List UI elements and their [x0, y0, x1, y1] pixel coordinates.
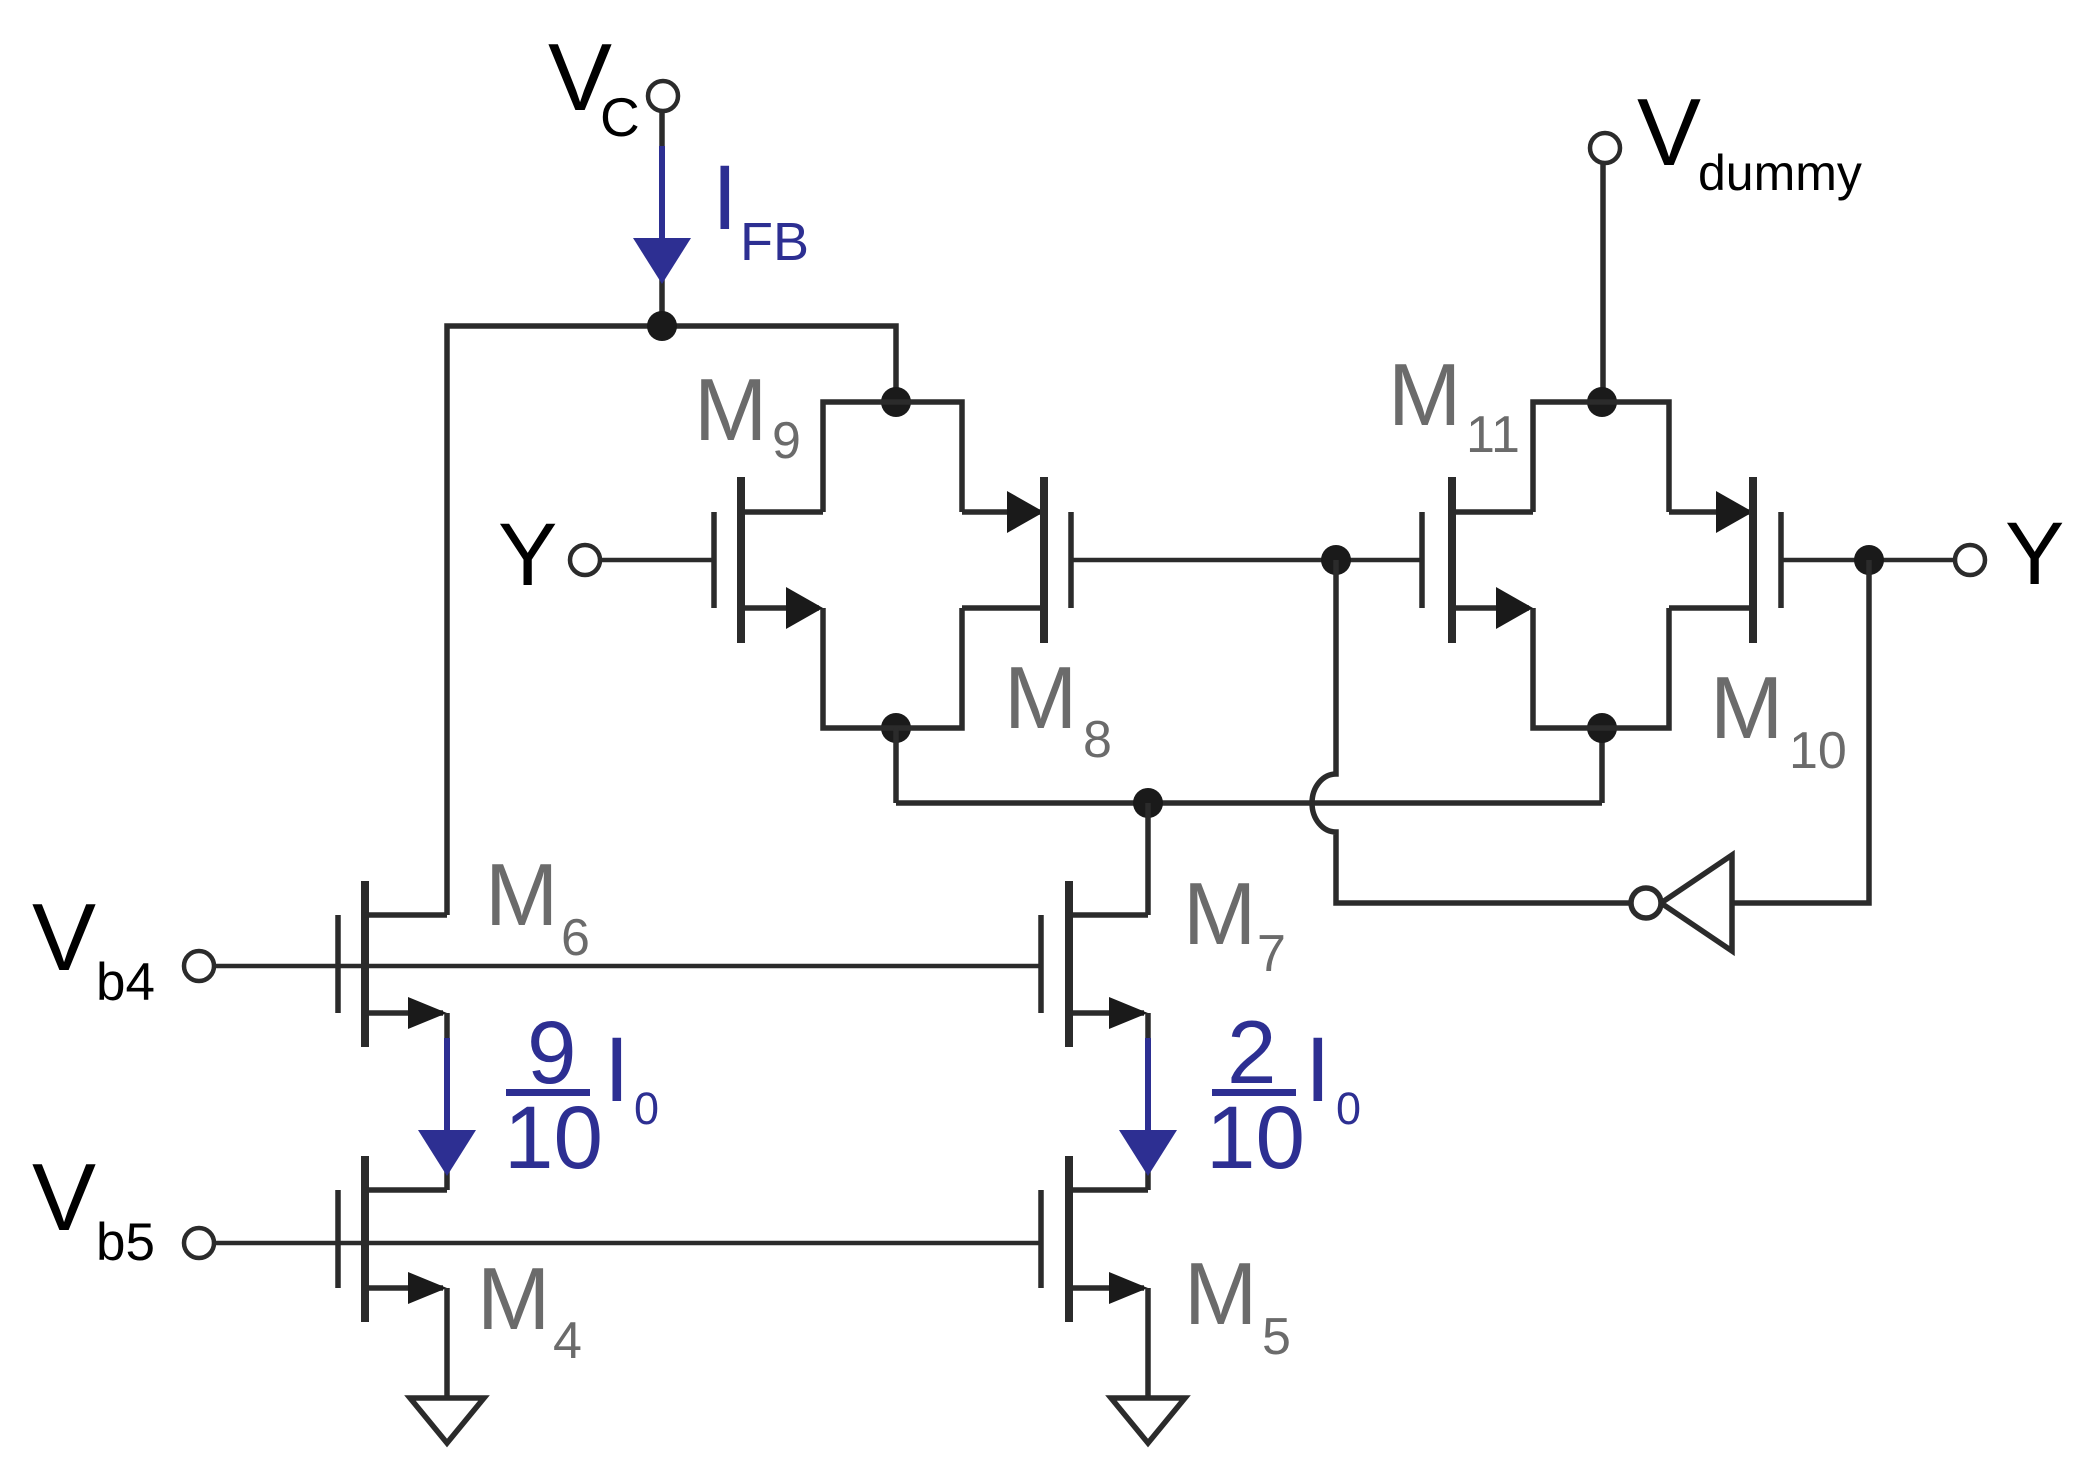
label IFB: [712, 147, 809, 272]
wire Y input to M9 gate: [599, 558, 714, 563]
wire bottom rail y803: [896, 800, 1602, 806]
wire feedback vertical with hop: [1312, 560, 1631, 903]
svg-text:9: 9: [772, 412, 801, 470]
wire M5 source to ground: [1145, 1288, 1151, 1397]
svg-text:6: 6: [561, 909, 590, 967]
svg-text:I: I: [712, 147, 738, 249]
node M11-M10 top junction: [1587, 387, 1617, 417]
svg-text:M: M: [1004, 648, 1077, 747]
wire M4 source lead with arrow: [365, 1272, 447, 1304]
svg-text:I: I: [1305, 1019, 1331, 1121]
svg-text:C: C: [600, 86, 640, 148]
svg-text:0: 0: [634, 1083, 659, 1134]
wire M5 drain lead: [1069, 1187, 1148, 1193]
svg-text:10: 10: [504, 1087, 603, 1187]
svg-text:0: 0: [1336, 1083, 1361, 1134]
svg-text:Y: Y: [2005, 503, 2064, 603]
svg-text:dummy: dummy: [1698, 145, 1862, 201]
label 2/10 I0: [1206, 1002, 1361, 1187]
wire M7 drain lead: [1069, 912, 1148, 918]
svg-text:V: V: [32, 884, 96, 991]
label Y input: [498, 504, 557, 604]
transistor M7: [1041, 881, 1069, 1047]
wire M10 drain lead with arrow: [1669, 491, 1753, 533]
label M8: [1004, 648, 1112, 769]
transistor M9: [714, 477, 741, 643]
wire VC rail: from left branch corner across to M9/M8 drop: [447, 326, 896, 915]
node M7 drain junction: [1133, 788, 1163, 818]
svg-text:11: 11: [1466, 406, 1520, 464]
wire M6 drain lead: [365, 912, 447, 918]
svg-text:10: 10: [1206, 1087, 1305, 1187]
transistor M5: [1041, 1156, 1069, 1322]
wire bottom rail riser to M11-M10: [1599, 728, 1605, 803]
svg-text:5: 5: [1262, 1308, 1291, 1366]
ground under M5: [1111, 1398, 1185, 1443]
svg-text:M: M: [694, 360, 767, 459]
wire M11-M10 top arms: [1533, 402, 1669, 512]
inverter U1: [1631, 855, 1732, 951]
transistor M8: [1044, 477, 1071, 643]
wire M9-M8 bottom arms: [823, 608, 962, 728]
transistor M6: [338, 881, 365, 1047]
node M8-M11 gate junction: [1321, 545, 1351, 575]
current arrow IFB: [633, 146, 691, 284]
svg-text:M: M: [1710, 658, 1783, 757]
wire M7 source to M5 drain: [1145, 1013, 1151, 1190]
svg-text:M: M: [477, 1249, 550, 1348]
node M9-M8 bottom junction: [881, 713, 911, 743]
svg-text:M: M: [1184, 1244, 1257, 1343]
terminal Vb5: [184, 1228, 214, 1258]
wire Vb5 bias rail: [214, 1241, 1041, 1246]
wire M8 drain lead with arrow: [962, 491, 1044, 533]
current arrow 9/10 I0: [418, 1038, 476, 1176]
current arrow 2/10 I0: [1119, 1038, 1177, 1176]
node M9-M8 top junction: [881, 387, 911, 417]
terminal V dummy: [1590, 133, 1620, 163]
wire V dummy stem: [1600, 162, 1606, 402]
wire Vb4 bias rail: [214, 964, 1041, 969]
label Vb5: [32, 1144, 155, 1272]
wire M4 source to ground: [444, 1288, 450, 1397]
wire M10 source lead: [1669, 605, 1753, 611]
svg-text:7: 7: [1257, 925, 1286, 983]
svg-text:10: 10: [1789, 722, 1847, 780]
terminal Vb4: [184, 951, 214, 981]
label M11: [1388, 345, 1520, 464]
label V dummy: [1637, 79, 1862, 201]
label M10: [1710, 658, 1847, 780]
transistor M10: [1753, 477, 1781, 643]
label Y output: [2005, 503, 2064, 603]
wire M6 source lead with arrow: [365, 997, 447, 1029]
svg-text:I: I: [604, 1019, 630, 1121]
wire M7 source lead with arrow: [1069, 997, 1148, 1029]
wire M9-M8 bottom stem: [893, 728, 899, 803]
svg-text:b5: b5: [96, 1213, 155, 1272]
label Vb4: [32, 884, 155, 1012]
transistor M4: [338, 1156, 365, 1322]
ground under M4: [410, 1398, 484, 1443]
label M9: [694, 360, 801, 470]
label M5: [1184, 1244, 1291, 1366]
terminal Y input: [570, 545, 600, 575]
wire Y output feedback down: [1732, 560, 1869, 903]
wire M9 drain lead: [741, 509, 823, 515]
node M11-M10 bottom junction: [1587, 713, 1617, 743]
wire M8 gate to M11 gate: [1071, 558, 1422, 563]
svg-text:M: M: [1388, 345, 1461, 444]
svg-text:8: 8: [1083, 711, 1112, 769]
svg-text:V: V: [32, 1144, 96, 1251]
node Y output junction: [1854, 545, 1884, 575]
svg-text:b4: b4: [96, 953, 155, 1012]
svg-text:FB: FB: [740, 212, 809, 272]
wire M11 drain lead: [1452, 509, 1533, 515]
svg-text:M: M: [485, 845, 558, 944]
label M6: [485, 845, 590, 967]
wire VC stem: [659, 110, 665, 326]
label M4: [477, 1249, 582, 1370]
wire M9-M8 top arms: [823, 402, 962, 512]
wire M9 source lead with arrow: [741, 587, 823, 629]
wire M11-M10 bottom arms: [1533, 608, 1669, 728]
label 9/10 I0: [504, 1002, 659, 1187]
wire M10 gate to Y terminal: [1781, 558, 1955, 563]
wire M4 drain lead: [365, 1187, 447, 1193]
wire M6 source to M4 drain: [444, 1013, 450, 1190]
label VC: [548, 24, 640, 148]
terminal Y output: [1955, 545, 1985, 575]
transistor M11: [1422, 477, 1452, 643]
wire M5 source lead with arrow: [1069, 1272, 1148, 1304]
wire M11 source lead with arrow: [1452, 587, 1533, 629]
svg-text:M: M: [1183, 864, 1256, 963]
svg-text:Y: Y: [498, 504, 557, 604]
label M7: [1183, 864, 1286, 983]
svg-text:4: 4: [553, 1312, 582, 1370]
node VC junction: [647, 311, 677, 341]
svg-text:V: V: [1637, 79, 1701, 186]
wire M7 drain stem: [1145, 803, 1151, 915]
wire M8 source lead: [962, 605, 1044, 611]
terminal VC: [648, 81, 678, 111]
